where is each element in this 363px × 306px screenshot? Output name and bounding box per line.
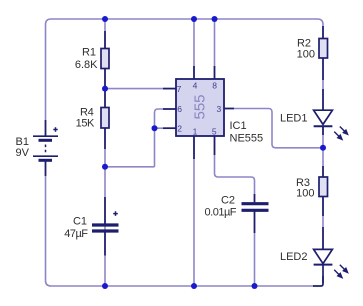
svg-text:555: 555 xyxy=(191,94,208,119)
svg-text:15K: 15K xyxy=(76,117,95,129)
svg-text:3: 3 xyxy=(217,104,222,114)
svg-text:47µF: 47µF xyxy=(64,228,88,240)
svg-text:100: 100 xyxy=(297,48,315,60)
svg-text:5: 5 xyxy=(212,127,217,137)
svg-text:100: 100 xyxy=(296,188,314,200)
svg-text:NE555: NE555 xyxy=(230,132,264,144)
svg-text:1: 1 xyxy=(193,127,198,137)
svg-text:C2: C2 xyxy=(221,195,235,207)
svg-text:C1: C1 xyxy=(73,216,87,228)
svg-text:0.01µF: 0.01µF xyxy=(205,207,237,219)
svg-text:6.8K: 6.8K xyxy=(75,59,98,71)
svg-text:R1: R1 xyxy=(82,46,96,58)
svg-text:8: 8 xyxy=(212,81,217,91)
svg-text:IC1: IC1 xyxy=(230,120,247,132)
svg-text:6: 6 xyxy=(177,104,182,114)
svg-text:LED2: LED2 xyxy=(280,251,308,263)
svg-text:LED1: LED1 xyxy=(280,113,308,125)
svg-text:4: 4 xyxy=(193,81,198,91)
svg-text:2: 2 xyxy=(177,124,182,134)
svg-text:9V: 9V xyxy=(16,147,30,159)
svg-text:7: 7 xyxy=(177,84,182,94)
